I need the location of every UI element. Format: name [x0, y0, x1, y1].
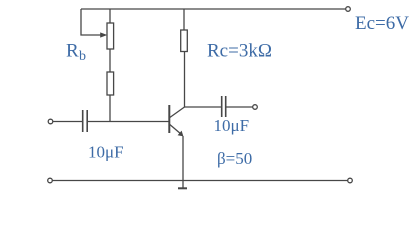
- wire Rb to base node: [109, 95, 111, 122]
- wire input terminal to C1: [53, 121, 82, 123]
- label 10uF input: [88, 143, 124, 162]
- wire bottom rail: [53, 180, 348, 182]
- label Rb: [66, 41, 86, 65]
- label Rc=3kOhm: [207, 41, 272, 62]
- transistor Q1 bar: [168, 105, 170, 133]
- wire C2 to output terminal: [226, 106, 253, 108]
- wire collector node to C2: [185, 106, 222, 108]
- terminal bottom-left: [48, 178, 53, 183]
- wire potentiometer wiper loop: [81, 9, 102, 35]
- transistor Q1 emitter diagonal with arrow: [170, 125, 184, 137]
- transistor Q1 collector diagonal: [170, 107, 185, 118]
- label Ec=6V: [355, 13, 409, 34]
- resistor Rb upper section (rheostat body): [107, 23, 114, 49]
- svg-text:10μF: 10μF: [88, 143, 124, 162]
- svg-text:β=50: β=50: [217, 149, 252, 168]
- svg-text:b: b: [79, 49, 86, 64]
- svg-text:Ec=6V: Ec=6V: [355, 13, 409, 34]
- resistor Rc: [181, 30, 188, 52]
- svg-text:Rc=3kΩ: Rc=3kΩ: [207, 41, 272, 62]
- wire from top rail to Rb upper section: [109, 9, 111, 23]
- resistor Rb lower section: [107, 72, 114, 95]
- wire top supply rail: [81, 8, 346, 10]
- label 10uF output: [214, 116, 250, 135]
- svg-text:R: R: [66, 41, 79, 62]
- capacitor C2 output 10uF: [222, 96, 226, 117]
- terminal output (right): [253, 105, 258, 110]
- label beta=50: [217, 149, 252, 168]
- wire emitter down to ground: [182, 136, 184, 188]
- ground: [178, 187, 187, 189]
- wire between Rb sections: [109, 49, 111, 72]
- svg-text:10μF: 10μF: [214, 116, 250, 135]
- capacitor C1 input 10uF: [83, 110, 88, 132]
- terminal input (left): [48, 119, 53, 124]
- wire C1 to transistor base: [87, 121, 168, 123]
- terminal top-right (Ec supply): [346, 7, 351, 12]
- wire Rc to collector node: [184, 52, 186, 108]
- terminal bottom-right: [348, 178, 353, 183]
- arrowhead of wiper pointing at Rb body: [100, 32, 107, 37]
- wire top rail to Rc: [183, 9, 185, 30]
